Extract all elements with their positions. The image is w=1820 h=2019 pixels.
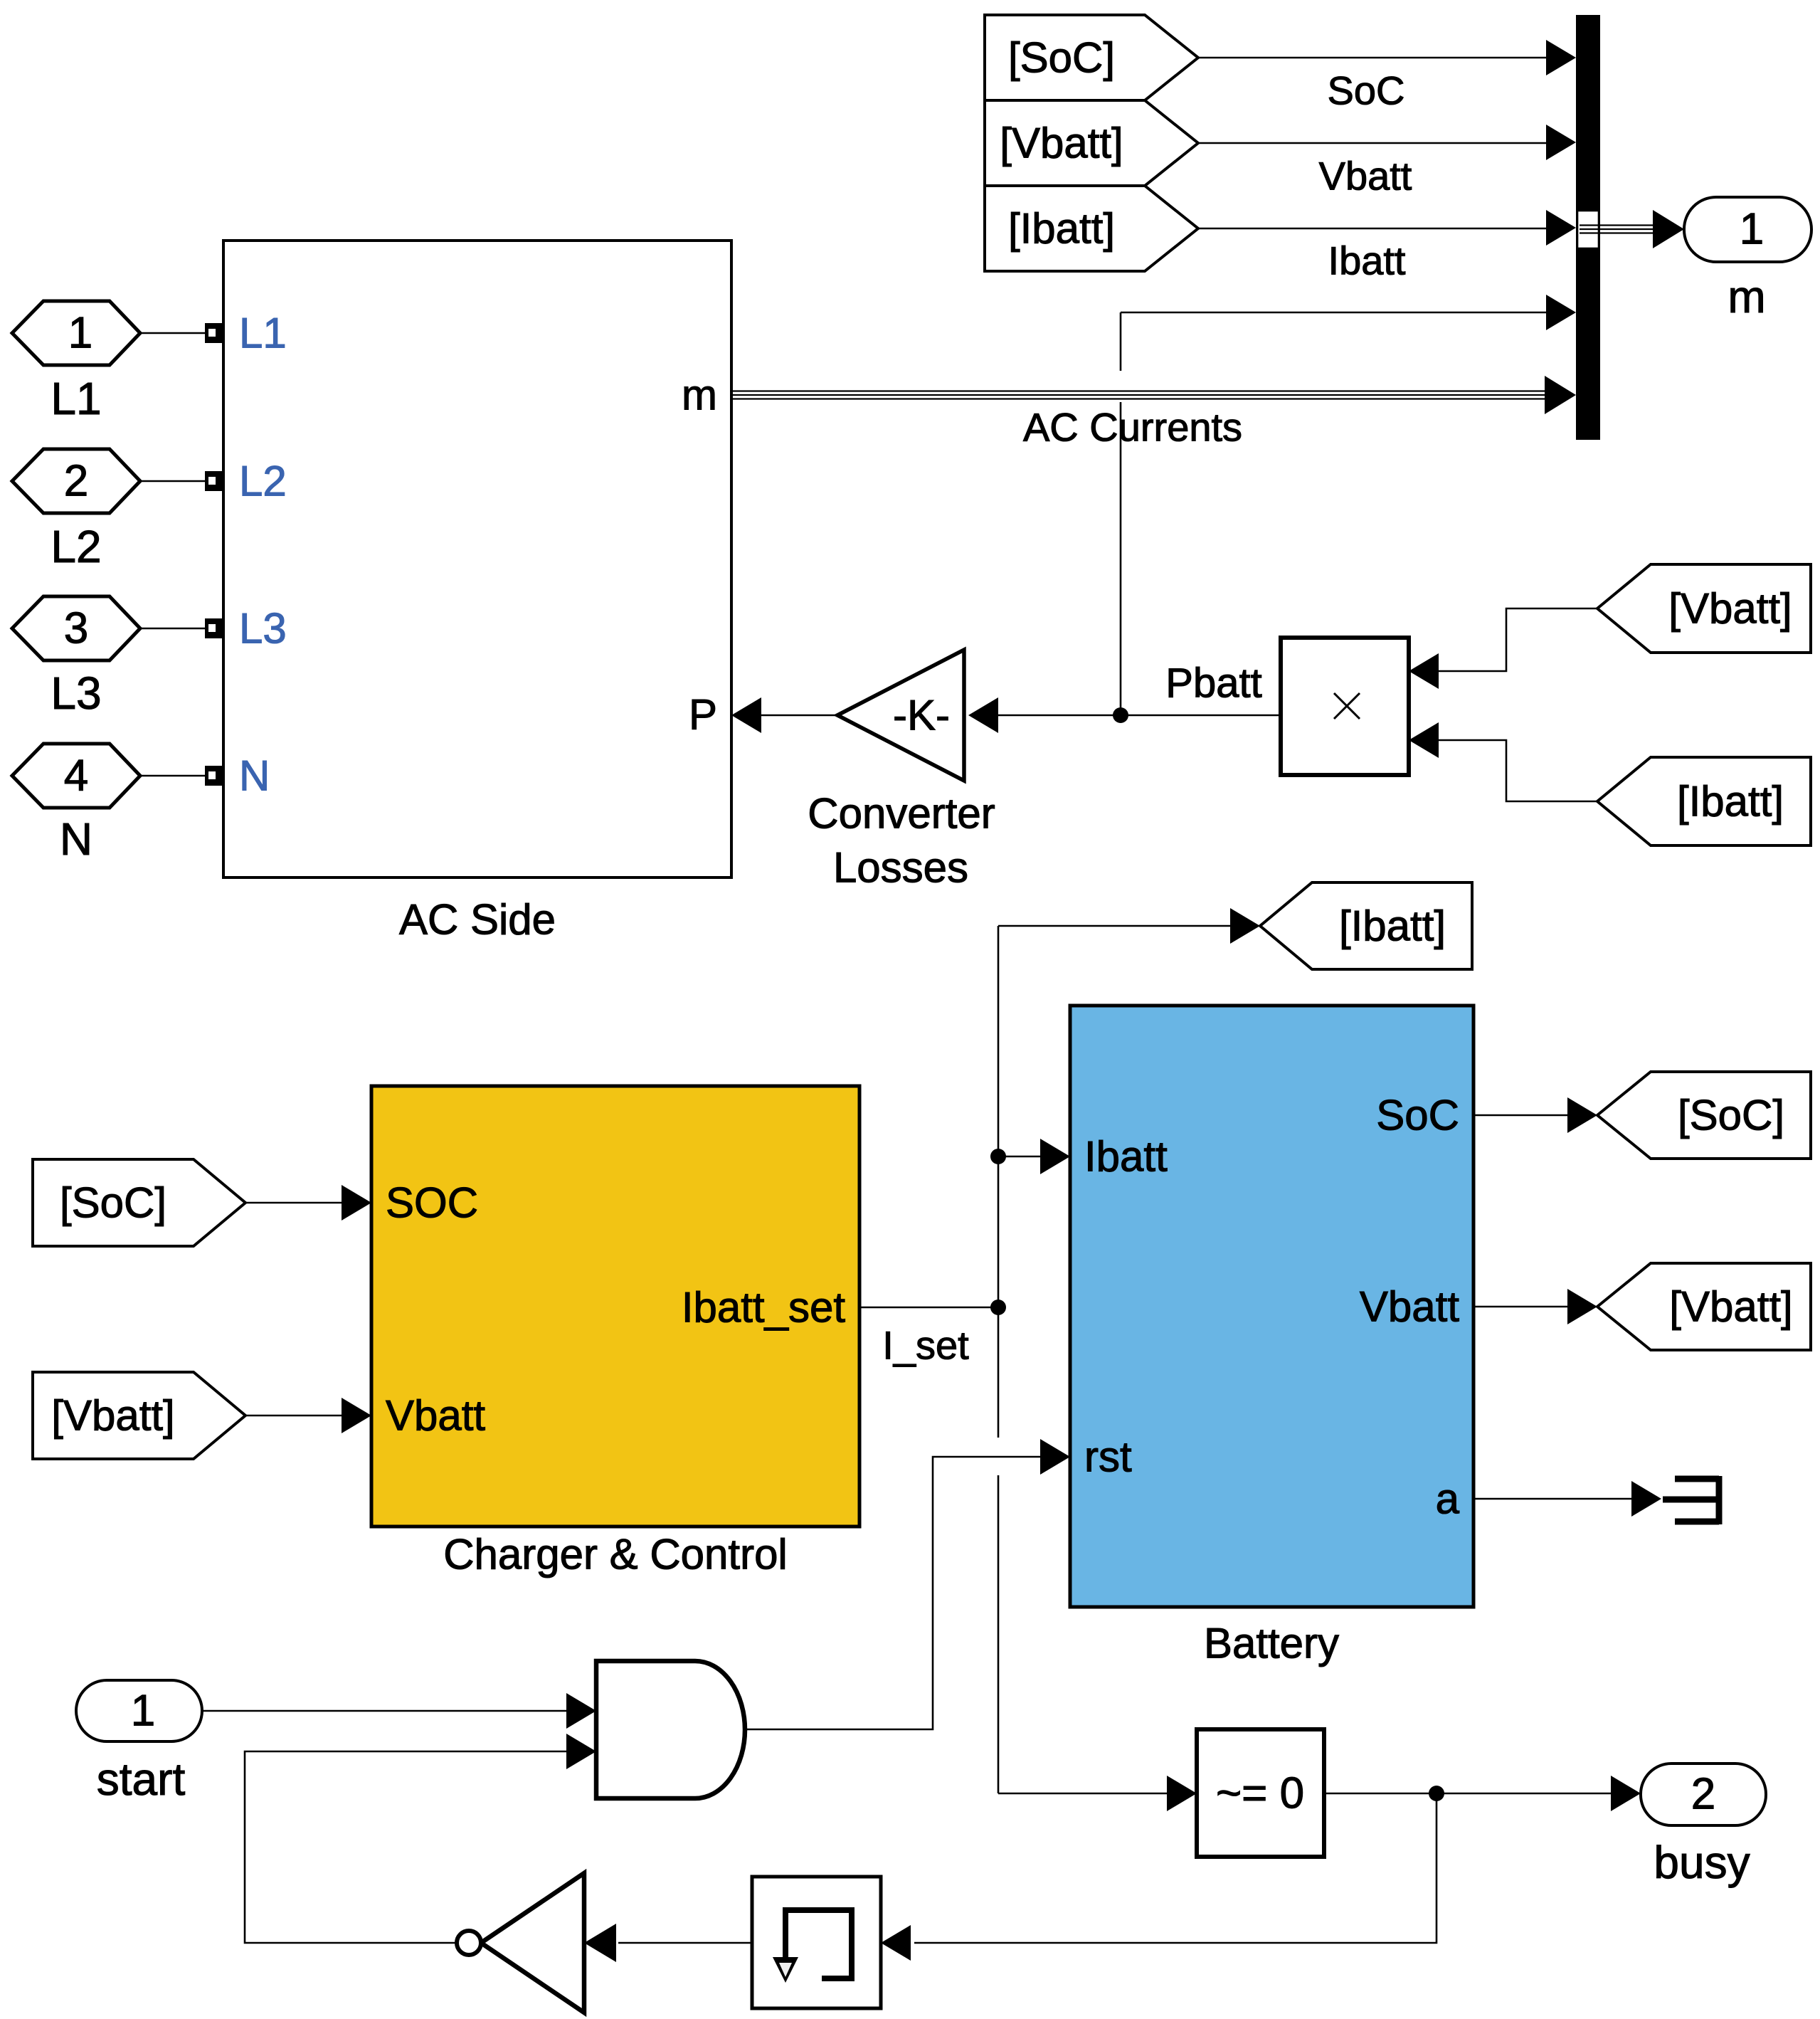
From tag [SoC] left <box>33 1159 245 1246</box>
svg-text:[Ibatt]: [Ibatt] <box>1677 778 1784 826</box>
wire branch to battery Ibatt <box>998 1139 1070 1174</box>
svg-text:Ibatt: Ibatt <box>1328 238 1406 283</box>
svg-text:m: m <box>1728 271 1765 322</box>
svg-text:[SoC]: [SoC] <box>1678 1092 1784 1139</box>
input port 2 (L2) hexagon <box>12 449 140 572</box>
svg-text:AC Currents: AC Currents <box>1023 405 1242 450</box>
From tag [Ibatt] right <box>1597 757 1811 845</box>
product block (x) <box>1281 638 1439 775</box>
subsystem block AC Side <box>223 241 731 944</box>
wire AC Side m to mux (wide vector line) <box>731 376 1576 450</box>
svg-text:Vbatt: Vbatt <box>1360 1283 1459 1331</box>
svg-text:SoC: SoC <box>1328 68 1405 113</box>
wire start to AND input 1 <box>202 1693 596 1729</box>
svg-text:2: 2 <box>1691 1770 1715 1819</box>
wire branch down to compare block <box>998 1776 1197 1811</box>
svg-text:start: start <box>97 1754 186 1805</box>
svg-text:rst: rst <box>1084 1433 1132 1481</box>
svg-text:Ibatt_set: Ibatt_set <box>682 1284 845 1332</box>
svg-text:L1: L1 <box>51 373 101 424</box>
mux (black bar) <box>1576 15 1600 440</box>
svg-text:1: 1 <box>68 309 92 358</box>
terminator <box>1663 1476 1719 1524</box>
From tag [SoC] top <box>985 15 1198 100</box>
From tag [Vbatt] right <box>1597 564 1811 653</box>
subsystem block Battery <box>1070 1006 1474 1667</box>
wire NOT output to AND input 2 <box>245 1751 566 1943</box>
wire port2 to AC Side <box>140 480 205 483</box>
wire battery SoC to goto [SoC] <box>1474 1097 1597 1133</box>
wire Ibatt to mux <box>1198 210 1576 283</box>
svg-text:busy: busy <box>1654 1837 1750 1888</box>
svg-text:N: N <box>60 813 92 865</box>
AND gate <box>566 1661 745 1798</box>
svg-text:L2: L2 <box>51 521 101 572</box>
svg-text:AC Side: AC Side <box>399 896 556 944</box>
svg-text:Charger & Control: Charger & Control <box>443 1531 788 1578</box>
Goto tag [Vbatt] <box>1597 1263 1811 1350</box>
compare block ~= 0 <box>1197 1729 1324 1857</box>
svg-text:I_set: I_set <box>882 1323 969 1368</box>
wire [Ibatt] to product input 2 <box>1439 740 1597 801</box>
svg-text:-K-: -K- <box>893 692 950 739</box>
wire mux to output port m (wide vector line) <box>1580 210 1684 248</box>
svg-text:[Ibatt]: [Ibatt] <box>1339 902 1446 950</box>
svg-text:Converter: Converter <box>808 790 995 838</box>
svg-text:L2: L2 <box>239 458 287 505</box>
wire [SoC] to charger SOC <box>245 1185 371 1221</box>
input port 1 (L1) hexagon <box>12 301 140 424</box>
output port 1 (m) <box>1684 197 1811 322</box>
svg-text:P: P <box>689 691 717 739</box>
Goto tag [SoC] <box>1597 1072 1811 1159</box>
svg-text:L1: L1 <box>239 310 287 357</box>
svg-text:[Vbatt]: [Vbatt] <box>51 1392 174 1440</box>
wire SoC to mux <box>1198 40 1576 113</box>
wire port3 to AC Side <box>140 628 205 630</box>
input port 4 (N) hexagon <box>12 744 140 865</box>
svg-text:a: a <box>1436 1475 1460 1523</box>
output port 2 (busy) <box>1641 1764 1766 1888</box>
wire Ibatt_set (I_set) with branches <box>859 926 1006 1793</box>
port connector squares on AC Side left edge <box>205 323 223 786</box>
wire [Vbatt] to charger Vbatt <box>245 1398 371 1433</box>
From tag [Ibatt] top <box>985 186 1198 271</box>
svg-text:L3: L3 <box>239 605 287 653</box>
memory block <box>752 1877 881 2008</box>
svg-text:SoC: SoC <box>1376 1092 1459 1139</box>
NOT gate <box>457 1873 584 2013</box>
Goto tag [Ibatt] <box>1260 882 1472 969</box>
gain Converter Losses (-K-) <box>808 650 995 892</box>
wire compare to busy port with branch <box>881 1776 1641 1961</box>
svg-text:Pbatt: Pbatt <box>1165 660 1261 707</box>
wire product output to gain input (Pbatt) <box>968 660 1281 734</box>
wire port4 to AC Side <box>140 775 205 777</box>
wire port1 to AC Side <box>140 332 205 334</box>
svg-text:Losses: Losses <box>833 844 968 892</box>
svg-text:[Vbatt]: [Vbatt] <box>1000 120 1123 167</box>
svg-text:Ibatt: Ibatt <box>1084 1133 1168 1181</box>
subsystem block Charger & Control <box>371 1086 859 1578</box>
svg-text:SOC: SOC <box>386 1179 478 1227</box>
wire Vbatt to mux <box>1198 125 1576 199</box>
svg-text:[SoC]: [SoC] <box>1008 34 1115 82</box>
From tag [Vbatt] top <box>985 100 1198 186</box>
svg-text:2: 2 <box>64 457 88 506</box>
svg-text:[SoC]: [SoC] <box>60 1179 166 1227</box>
wire gain output to AC Side P <box>731 697 837 733</box>
input port 1 (start) <box>76 1680 202 1805</box>
svg-text:[Vbatt]: [Vbatt] <box>1669 1283 1792 1331</box>
wire AND output to battery rst <box>745 1439 1070 1729</box>
svg-text:3: 3 <box>64 604 88 653</box>
svg-text:N: N <box>239 752 270 800</box>
svg-text:Battery: Battery <box>1204 1620 1339 1667</box>
svg-text:1: 1 <box>1740 205 1764 254</box>
svg-text:[Ibatt]: [Ibatt] <box>1008 205 1115 253</box>
wire [Vbatt] to product input 1 <box>1439 608 1597 671</box>
wire battery a to terminator <box>1474 1481 1661 1517</box>
svg-text:~= 0: ~= 0 <box>1216 1769 1304 1818</box>
From tag [Vbatt] left <box>33 1372 245 1459</box>
wire branch to goto [Ibatt] <box>998 908 1260 944</box>
svg-text:Vbatt: Vbatt <box>386 1392 485 1440</box>
input port 3 (L3) hexagon <box>12 596 140 719</box>
svg-text:4: 4 <box>64 752 88 801</box>
wire Pbatt branch up to mux input 4 <box>1121 295 1576 715</box>
svg-text:1: 1 <box>131 1687 155 1736</box>
svg-text:m: m <box>682 371 717 419</box>
svg-text:[Vbatt]: [Vbatt] <box>1668 585 1792 633</box>
svg-text:L3: L3 <box>51 668 101 719</box>
wire memory to NOT gate <box>584 1924 752 1962</box>
svg-text:Vbatt: Vbatt <box>1319 154 1412 199</box>
wire battery Vbatt to goto [Vbatt] <box>1474 1289 1597 1324</box>
